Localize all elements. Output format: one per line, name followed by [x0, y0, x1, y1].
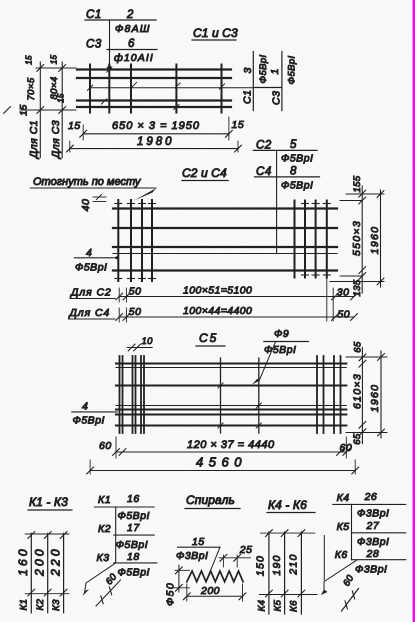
callout C1: pos 2 dia 8 A-III	[85, 9, 156, 35]
callout K3 18/f5BpI	[97, 551, 158, 579]
callout K2 17/f5BpI	[98, 522, 154, 551]
left dim chain C1 : 15 / 70x5 / 15	[4, 55, 76, 160]
callout K4 26/f3BpI	[333, 491, 406, 520]
mesh C5 right cross wires (pairs)	[317, 356, 341, 433]
callout K1 16/f5BpI	[94, 493, 154, 522]
mesh C1/C3 longitudinal wires	[77, 70, 231, 108]
mesh C5 left cross wires (pairs)	[120, 356, 145, 433]
title C5	[196, 331, 225, 346]
dia 50 dim	[165, 565, 190, 606]
title K1-K3	[28, 495, 72, 510]
mesh C2/C4 right cross wire cluster	[295, 201, 327, 278]
small crossing ticks	[87, 85, 92, 90]
callout C3: pos 6 dia 10 A-II	[86, 38, 157, 64]
callout divider / leader down into mesh	[276, 150, 278, 253]
bars K4 K5 K6	[255, 530, 318, 614]
mesh C1/C3 cross wires	[90, 65, 222, 113]
scanner magenta edge	[413, 0, 415, 622]
title C1 i C3	[192, 26, 238, 40]
mesh C2/C4 left cross wire cluster	[118, 200, 152, 281]
bars K1 K2 K3	[16, 532, 69, 613]
callout divider + leader	[351, 504, 353, 559]
title Spiral	[185, 493, 240, 509]
bottom dim 650x3=1950	[68, 117, 244, 140]
bottom dim 120x37=4440	[99, 437, 352, 458]
callout K6 28/f3BpI	[335, 548, 406, 576]
callout divider + leader	[115, 507, 117, 563]
bottom dim 1980	[66, 136, 241, 152]
dim 10 top-left	[127, 336, 153, 351]
right dim chain 65/610x3/65	[346, 341, 387, 445]
mesh C5 longitudinal wires	[116, 364, 346, 426]
label 4 / f5BpI left	[74, 247, 119, 274]
callout K5 27/f3BpI	[337, 520, 406, 548]
right dim chain 155/550x3/135	[330, 175, 384, 296]
title C2 i C4	[182, 166, 228, 181]
dim row Dlya C2	[70, 278, 357, 321]
mesh C5 middle cross wires	[221, 358, 259, 433]
right cluster tick crosses	[302, 204, 331, 276]
callout divider / leader to mesh	[109, 20, 111, 64]
title K4-K6	[267, 498, 315, 513]
dim 200	[183, 584, 246, 601]
diagonal dim 60 K1-K3	[96, 571, 121, 606]
callout C2: pos 5 dia 5 BpI	[253, 139, 317, 165]
label 4 / f5BpI left	[72, 401, 118, 427]
dim row Dlya C4	[69, 305, 358, 322]
left cluster tick crosses	[115, 204, 156, 279]
callout f9 / f5BpI	[252, 328, 309, 385]
rotated callout right: C1 3/f5BpI	[242, 52, 298, 111]
callout C4: pos 8 dia 5 BpI	[255, 166, 320, 192]
diagonal dim 60 K4-K6	[341, 573, 358, 611]
dim 25 pitch	[219, 544, 252, 567]
note Otognut po mestu with leader	[30, 176, 156, 201]
spiral zigzag	[187, 571, 243, 582]
mesh C2/C4 longitudinal wires	[113, 209, 337, 271]
dim 40 bent part	[80, 194, 106, 211]
callout 15 / f3BpI with leader	[176, 536, 220, 580]
bottom dim 4560	[87, 455, 359, 475]
